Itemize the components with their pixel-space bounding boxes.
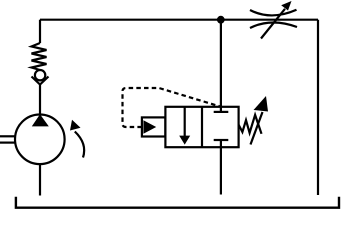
pump P1: drive shaft	[0, 135, 16, 137]
valve V2: spring adjustment arrow	[251, 112, 263, 145]
wire: valve to tank	[220, 147, 222, 194]
pilot line (dashed)	[123, 88, 221, 127]
valve V2: pilot actuator box	[142, 117, 166, 136]
flow control valve FC1: lower arc	[250, 22, 297, 28]
wire: pump to tank	[39, 164, 41, 196]
check valve V1: seat	[32, 77, 49, 85]
wire: check valve to pump	[39, 85, 41, 116]
node: junction J1	[217, 16, 225, 24]
wire: top rail	[40, 19, 318, 21]
valve V2: right position blocked port (bottom)	[220, 141, 222, 148]
flow control valve FC1: upper arc	[250, 10, 297, 16]
valve V2: right position blocked port (top)	[220, 107, 222, 112]
check valve V1: spring	[32, 43, 47, 70]
valve V2: body (two positions)	[165, 107, 238, 147]
wire: riser from valve to junction	[220, 20, 222, 107]
valve V2: left position flow arrow	[184, 107, 186, 137]
flow control valve FC1: adjustment arrow	[261, 9, 285, 39]
wire: right side drop	[317, 20, 319, 195]
valve V2: pilot triangle	[143, 120, 156, 134]
pump P1: rotation arrow	[75, 132, 84, 158]
valve V2: spring (adjustable)	[239, 115, 262, 134]
pump P1: outlet triangle	[32, 114, 49, 126]
pump P1: circle	[15, 115, 65, 165]
wire: top rail to check valve spring	[39, 20, 41, 43]
tank T1	[16, 197, 339, 208]
check valve V1: ball	[35, 70, 45, 80]
